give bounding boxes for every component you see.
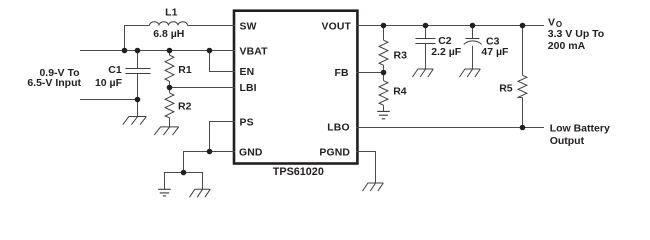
resistor R4 bbox=[379, 73, 388, 112]
node VOUT-R5 junction bbox=[520, 23, 526, 29]
pin PS label bbox=[240, 118, 254, 129]
svg-text:PS: PS bbox=[240, 118, 254, 129]
pin EN label bbox=[240, 67, 255, 78]
wire LBO line bbox=[357, 127, 545, 129]
svg-text:FB: FB bbox=[335, 68, 349, 79]
label C3 bbox=[486, 35, 500, 47]
wire L1 to SW bbox=[188, 25, 236, 27]
svg-text:6.8 µH: 6.8 µH bbox=[153, 28, 184, 40]
label C1 bbox=[108, 64, 122, 76]
label R5 bbox=[499, 82, 513, 94]
node VBAT-R1 junction bbox=[167, 48, 173, 54]
label C2 bbox=[438, 35, 452, 47]
label 47 uF bbox=[481, 46, 509, 58]
label R1 bbox=[178, 64, 192, 76]
label 10 uF bbox=[95, 77, 123, 89]
label Low Battery Output bbox=[550, 123, 610, 147]
inductor L1 bbox=[150, 22, 188, 26]
svg-text:EN: EN bbox=[240, 67, 255, 78]
svg-text:SW: SW bbox=[240, 21, 257, 32]
svg-text:Output: Output bbox=[550, 135, 585, 147]
node GND-PS junction bbox=[207, 149, 213, 155]
wire ground right arm bbox=[184, 173, 203, 190]
node LBO-R5 junction bbox=[520, 125, 526, 131]
ground earth below R4 bbox=[377, 111, 390, 118]
node ground split junction bbox=[181, 170, 187, 176]
label R4 bbox=[393, 85, 407, 97]
pin LBI label bbox=[240, 83, 257, 94]
wire GND branch bbox=[184, 152, 236, 173]
pin PGND label bbox=[319, 147, 350, 158]
wire EN branch bbox=[210, 51, 236, 72]
wire ground left arm bbox=[165, 173, 184, 190]
ground chassis below C1 bbox=[123, 117, 147, 125]
label 2.2 uF bbox=[431, 46, 462, 58]
node LBI junction bbox=[167, 85, 173, 91]
label 200 mA bbox=[548, 40, 586, 52]
resistor R5 bbox=[518, 26, 527, 128]
wire FB bbox=[357, 72, 384, 74]
svg-text:6.5-V Input: 6.5-V Input bbox=[27, 77, 81, 89]
wire PS branch bbox=[210, 122, 236, 152]
svg-text:L1: L1 bbox=[165, 7, 177, 19]
IC label TPS61020 bbox=[273, 166, 324, 178]
node VOUT-C3 junction bbox=[470, 23, 476, 29]
capacitor C3 polarized bbox=[464, 26, 482, 70]
pin LBO label bbox=[327, 122, 349, 133]
svg-text:LBI: LBI bbox=[240, 83, 257, 94]
node VBAT-EN junction bbox=[207, 48, 213, 54]
svg-text:3.3 V Up To: 3.3 V Up To bbox=[548, 28, 604, 40]
node VOUT-C2 junction bbox=[423, 23, 429, 29]
svg-text:LBO: LBO bbox=[327, 122, 349, 133]
svg-text:R4: R4 bbox=[393, 85, 407, 97]
svg-text:PGND: PGND bbox=[319, 147, 350, 158]
wire input return line bbox=[80, 99, 138, 101]
svg-text:47 µF: 47 µF bbox=[481, 46, 509, 58]
label R2 bbox=[178, 100, 192, 112]
node VBAT-C1 junction bbox=[135, 48, 141, 54]
label 6.8 uH bbox=[153, 28, 184, 40]
svg-text:R2: R2 bbox=[178, 100, 192, 112]
label VO bbox=[548, 17, 562, 29]
wire input VBAT line bbox=[80, 50, 235, 52]
svg-text:R1: R1 bbox=[178, 64, 192, 76]
svg-text:2.2 µF: 2.2 µF bbox=[431, 46, 462, 58]
label L1 bbox=[165, 7, 177, 19]
wire L1 branch vertical bbox=[125, 26, 150, 51]
node VOUT-R3 junction bbox=[381, 23, 387, 29]
wire VOUT line bbox=[357, 25, 545, 27]
svg-text:200 mA: 200 mA bbox=[548, 40, 586, 52]
pin VBAT label bbox=[240, 47, 269, 58]
pin GND label bbox=[239, 147, 263, 158]
node FB junction bbox=[381, 70, 387, 76]
resistor R3 bbox=[379, 26, 388, 73]
wire PGND branch bbox=[357, 152, 376, 184]
label 3.3 V Up To bbox=[548, 28, 604, 40]
svg-text:V: V bbox=[548, 17, 555, 29]
svg-text:10 µF: 10 µF bbox=[95, 77, 123, 89]
svg-text:TPS61020: TPS61020 bbox=[273, 166, 324, 178]
capacitor C2 bbox=[416, 26, 436, 70]
node C1 bottom junction bbox=[135, 97, 141, 103]
svg-text:GND: GND bbox=[239, 147, 263, 158]
svg-text:VBAT: VBAT bbox=[240, 47, 269, 58]
pin VOUT label bbox=[322, 21, 352, 32]
node VBAT-L1 junction bbox=[122, 48, 128, 54]
svg-text:Low Battery: Low Battery bbox=[550, 123, 610, 135]
resistor R2 bbox=[165, 88, 174, 127]
pin FB label bbox=[335, 68, 349, 79]
ground chassis below C3 bbox=[460, 69, 481, 77]
ground chassis right bbox=[190, 189, 211, 197]
svg-text:VOUT: VOUT bbox=[322, 21, 352, 32]
wire C1 to ground bbox=[137, 100, 139, 117]
svg-text:C1: C1 bbox=[108, 64, 122, 76]
svg-text:R3: R3 bbox=[394, 50, 408, 62]
label input voltage bbox=[27, 67, 81, 89]
label R3 bbox=[394, 50, 408, 62]
ground chassis below C2 bbox=[413, 69, 434, 77]
ground chassis below R2 bbox=[154, 127, 178, 135]
ground earth left bbox=[158, 189, 171, 196]
pin SW label bbox=[240, 21, 257, 32]
ground chassis below PGND bbox=[363, 183, 384, 191]
wire LBI bbox=[170, 87, 236, 89]
IC U1 TPS61020 box bbox=[234, 11, 357, 164]
svg-text:R5: R5 bbox=[499, 82, 513, 94]
resistor R1 bbox=[165, 51, 174, 88]
capacitor C1 bbox=[126, 51, 151, 100]
